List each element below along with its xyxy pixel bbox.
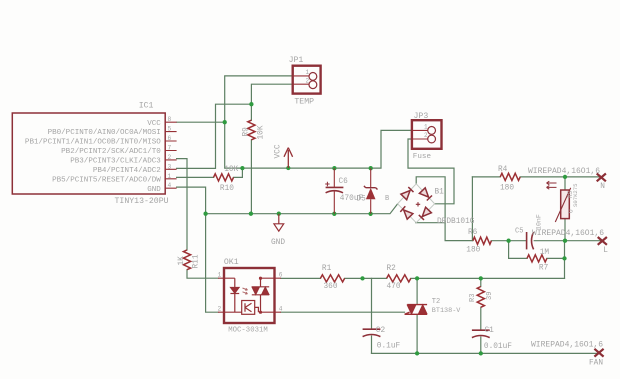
node L line / varistor R5 / triac net riser	[563, 239, 567, 243]
varistor R5	[555, 188, 570, 222]
svg-text:0.01uF: 0.01uF	[484, 343, 512, 351]
svg-text:R11: R11	[193, 254, 201, 268]
svg-text:TINY13-20PU: TINY13-20PU	[115, 197, 169, 206]
wirepad FAN	[594, 349, 603, 357]
svg-text:BT138-V: BT138-V	[432, 307, 461, 315]
wire varistor bottom lead	[564, 219, 566, 241]
wire FAN line to wirepad FAN	[372, 352, 600, 354]
svg-text:R2: R2	[387, 265, 397, 273]
svg-text:R9: R9	[243, 127, 251, 137]
node VCC rail / D5	[369, 166, 373, 170]
svg-text:PB5/PCINT5/RESET/ADC0/DW: PB5/PCINT5/RESET/ADC0/DW	[52, 176, 161, 184]
OK1 zero-cross box	[224, 301, 258, 315]
svg-text:WIREPAD4,16O1,6: WIREPAD4,16O1,6	[528, 167, 600, 176]
svg-text:D5: D5	[357, 195, 367, 203]
svg-text:1M: 1M	[540, 249, 550, 257]
svg-text:4: 4	[279, 305, 283, 312]
capacitor C6 polarized	[325, 168, 343, 214]
wire N corner riser	[471, 177, 473, 241]
triac T2	[405, 305, 428, 315]
svg-text:GND: GND	[147, 186, 161, 194]
wire T2 MT1 to FAN line	[416, 315, 418, 354]
svg-text:GND: GND	[271, 239, 285, 247]
svg-text:180: 180	[500, 184, 514, 192]
svg-text:PB3/PCINT3/CLKI/ADC3: PB3/PCINT3/CLKI/ADC3	[70, 158, 161, 166]
svg-text:5: 5	[168, 126, 172, 133]
svg-text:U: U	[568, 209, 575, 213]
svg-text:2: 2	[168, 154, 172, 161]
svg-text:2: 2	[424, 132, 428, 139]
node GND rail / C6	[332, 212, 336, 216]
node VCC rail / R10	[240, 166, 244, 170]
wire L line right of C5 to wirepad L	[534, 240, 602, 242]
svg-text:TEMP: TEMP	[294, 98, 314, 107]
wire L line left of C5	[491, 240, 525, 242]
optocoupler OK1 box	[224, 268, 275, 323]
resistor R6	[473, 237, 492, 244]
svg-text:180: 180	[466, 247, 480, 255]
svg-text:1: 1	[306, 69, 310, 76]
wire B1 bottom vertex link	[416, 222, 445, 224]
svg-text:FAN: FAN	[589, 360, 603, 368]
svg-text:360: 360	[324, 283, 338, 291]
IC1 pin names	[25, 120, 161, 194]
wirepad N	[597, 174, 606, 182]
svg-text:B: B	[385, 195, 389, 203]
OK1 emission arrows	[243, 288, 248, 294]
wire R7 bypass loop left	[509, 241, 527, 259]
svg-text:R3: R3	[469, 294, 477, 302]
wire B1 top vertex loop to R6	[416, 177, 473, 241]
node GND rail / D5	[368, 212, 372, 216]
svg-text:4: 4	[168, 182, 172, 189]
svg-text:OK1: OK1	[224, 258, 239, 267]
node VCC rail / C6	[332, 166, 336, 170]
svg-text:N: N	[600, 183, 605, 191]
node R7 right / riser	[562, 256, 566, 260]
svg-text:6: 6	[168, 135, 172, 142]
connector JP1 box	[293, 66, 321, 94]
OK1 internal LED	[224, 278, 239, 312]
node FAN line / C1	[479, 351, 483, 355]
wire N line with R4 to wirepad N	[472, 176, 601, 178]
svg-text:PB4/PCINT4/ADC2: PB4/PCINT4/ADC2	[93, 167, 161, 175]
svg-text:10K: 10K	[224, 166, 238, 174]
wire C2 bottom lead	[371, 336, 373, 353]
resistor R1	[320, 275, 344, 282]
wire R10 right lead up to VCC rail	[234, 168, 243, 177]
wire R9 bottom lead to GND rail	[250, 140, 252, 214]
svg-text:10K: 10K	[258, 125, 266, 139]
svg-text:B1: B1	[435, 189, 445, 197]
wire varistor top lead	[564, 177, 566, 190]
svg-text:7: 7	[168, 145, 172, 152]
node PB4 / R9 / JP1 pin2	[249, 102, 253, 106]
wire R3 to C1	[480, 307, 482, 330]
connector JP3 box	[412, 120, 442, 149]
svg-text:1K: 1K	[178, 256, 186, 266]
node GND rail / R9	[249, 212, 253, 216]
VCC arrow symbol	[284, 148, 293, 168]
resistor R11	[183, 250, 190, 270]
svg-text:MOC-3031M: MOC-3031M	[228, 326, 267, 334]
svg-text:PB1/PCINT1/AIN1/OC0B/INT0/MISO: PB1/PCINT1/AIN1/OC0B/INT0/MISO	[25, 139, 161, 147]
node GND rail / IC1 GND / OK1 pin2	[203, 212, 207, 216]
resistor R9	[248, 120, 255, 140]
node R3 top / triac net	[479, 276, 483, 280]
GND symbol	[274, 214, 284, 231]
svg-text:JP1: JP1	[289, 56, 304, 65]
resistor R4	[500, 173, 520, 180]
B1 plus mark	[416, 202, 420, 206]
svg-text:8: 8	[168, 116, 172, 123]
node FAN line / T2 MT1	[415, 351, 419, 355]
svg-text:R4: R4	[498, 166, 508, 174]
svg-text:PB2/PCINT2/SCK/ADC1/T0: PB2/PCINT2/SCK/ADC1/T0	[61, 148, 161, 156]
IC U1 TINY13-20PU box	[12, 113, 165, 194]
svg-text:1: 1	[424, 124, 428, 131]
svg-text:C2: C2	[376, 327, 386, 335]
wire C1 bottom lead	[480, 337, 482, 353]
wire R3 top lead	[480, 278, 482, 286]
svg-text:WIREPAD4,16O1,6: WIREPAD4,16O1,6	[531, 341, 603, 350]
svg-text:R6: R6	[468, 229, 478, 237]
svg-text:IC1: IC1	[139, 102, 154, 111]
resistor R7	[527, 255, 547, 262]
svg-text:L: L	[603, 247, 608, 255]
svg-text:1: 1	[218, 271, 222, 278]
wirepad L	[598, 237, 607, 245]
svg-text:C5: C5	[515, 228, 523, 236]
svg-text:R1: R1	[322, 265, 332, 273]
svg-text:R10: R10	[220, 185, 234, 193]
capacitor C1	[472, 330, 490, 337]
wire R9 top lead	[250, 104, 252, 120]
node L line / R7 left riser	[506, 239, 510, 243]
wire JP1 pin1 to VCC junction	[225, 76, 293, 122]
svg-text:T2: T2	[432, 298, 440, 306]
svg-text:3: 3	[168, 163, 172, 170]
svg-text:6: 6	[279, 271, 283, 278]
svg-text:C1: C1	[485, 327, 495, 335]
svg-text:2: 2	[306, 78, 310, 85]
svg-text:DBDB101G: DBDB101G	[437, 218, 475, 226]
IC1 pin stubs	[165, 122, 176, 188]
zener diode D5	[370, 168, 372, 214]
wire JP1 pin2 down to sensor node	[251, 84, 292, 104]
wire triac main net	[281, 277, 565, 279]
svg-text:10nF: 10nF	[536, 214, 543, 230]
node GND rail / GND symbol	[277, 212, 281, 216]
svg-text:1: 1	[168, 173, 172, 180]
wire IC1 PB3 down to R11	[177, 159, 187, 250]
svg-text:VCC: VCC	[274, 144, 282, 158]
svg-text:S07K275: S07K275	[572, 184, 579, 208]
node VCC pin8 / JP1 pin1	[223, 120, 227, 124]
svg-text:PB0/PCINT0/AIN0/OC0A/MOSI: PB0/PCINT0/AIN0/OC0A/MOSI	[48, 129, 161, 137]
capacitor C5	[527, 232, 534, 249]
svg-text:R7: R7	[539, 265, 549, 273]
svg-text:VCC: VCC	[147, 120, 161, 128]
resistor R10	[214, 174, 234, 181]
node R1 R2 junction	[360, 276, 364, 280]
wire JP3 pin2 to B1 right vertex	[408, 139, 454, 204]
node VCC rail / VCC symbol	[286, 166, 290, 170]
svg-text:JP3: JP3	[414, 112, 429, 121]
wire IC1 GND down to OK1 pin2	[177, 187, 218, 312]
node N line / varistor R5 top	[563, 175, 567, 179]
wire C2 top lead from R1 R2 node	[371, 278, 373, 329]
wire R11 bottom to OK1 pin1	[187, 270, 218, 279]
svg-text:Fuse: Fuse	[413, 153, 432, 161]
node triac T2 MT2 / R2 / B1	[415, 276, 419, 280]
wire R10 left lead from IC1 PB5	[177, 176, 214, 178]
wire GND rail	[206, 204, 398, 214]
svg-text:WIREPAD4,16O1,6: WIREPAD4,16O1,6	[532, 229, 604, 238]
capacitor C2	[363, 329, 381, 336]
wire VCC rail to JP3 pin1	[242, 130, 412, 168]
bridge rectifier B1	[398, 184, 435, 223]
svg-text:0.1uF: 0.1uF	[377, 342, 401, 350]
svg-text:2: 2	[218, 305, 222, 312]
IC1 pin numbers	[168, 116, 172, 189]
OK1 pin stubs	[218, 278, 281, 312]
OK1 internal triac	[252, 277, 275, 314]
svg-text:39: 39	[486, 292, 494, 300]
svg-text:470: 470	[387, 283, 401, 291]
wire R7 right to L line	[547, 241, 565, 279]
svg-text:C6: C6	[339, 178, 349, 186]
wire OK1 pin4 to T2 gate	[281, 311, 405, 313]
wire VCC drop from pin8 junction down to VCC rail	[225, 122, 243, 168]
wire T2 MT2 riser	[416, 278, 418, 304]
resistor R2	[387, 275, 411, 282]
wire VCC pin8 of IC1 to junction	[177, 121, 225, 123]
resistor R3	[477, 287, 484, 308]
wire sensor node to IC1 pin PB4	[177, 104, 252, 168]
